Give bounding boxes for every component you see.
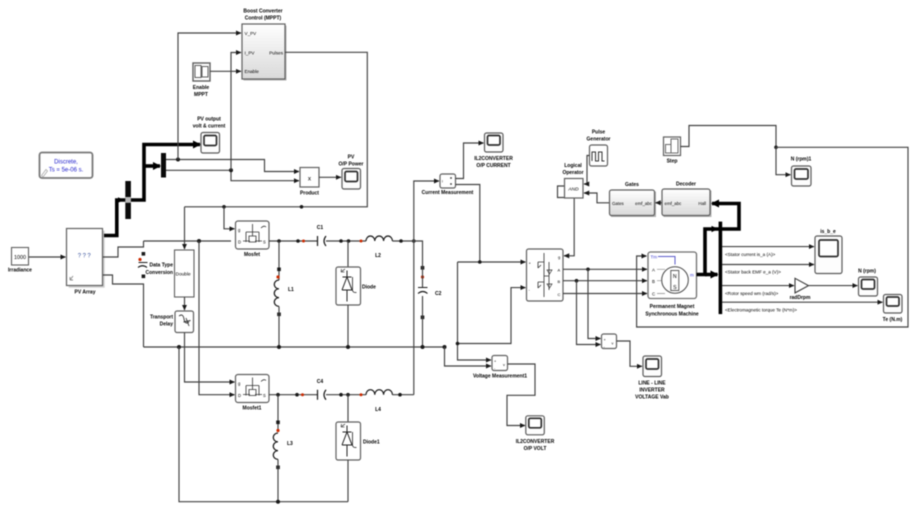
svg-text:Tm: Tm [651, 255, 658, 260]
svg-text:<Rotor speed wm (rad/s)>: <Rotor speed wm (rad/s)> [725, 291, 779, 296]
node rail1 branch to row2 [197, 239, 201, 243]
wire inverter minus [458, 288, 526, 344]
wire PV+ to rail1 [103, 241, 144, 257]
svg-text:LINE - LINE: LINE - LINE [638, 381, 666, 387]
bus arrow at bar crossing [712, 226, 719, 232]
wire Transport Delay to Mosfet1 gate [185, 333, 235, 383]
svg-text:N: N [673, 274, 677, 280]
svg-text:Logical: Logical [564, 163, 582, 169]
block Gates [610, 182, 657, 217]
block Transport Delay [150, 311, 194, 333]
diode block Diode1 [336, 422, 380, 460]
PMSM block Permanent Magnet Synchronous Machine [645, 252, 699, 317]
wire big loop to Tm [637, 147, 908, 327]
subsystem Boost Converter Control (MPPT) [242, 9, 287, 81]
svg-text:S: S [263, 393, 266, 398]
bus branch to bus selector 2 [144, 164, 160, 168]
wire diode bottom [347, 305, 349, 347]
svg-text:Step: Step [667, 159, 678, 165]
bus selector bar (right) [719, 222, 723, 315]
svg-text:N (rpm)1: N (rpm)1 [791, 157, 812, 163]
block Data Type Conversion (Double) [145, 250, 194, 297]
svg-text:Voltage Measurement1: Voltage Measurement1 [473, 374, 527, 380]
svg-text:S: S [263, 240, 266, 245]
svg-text:Synchronous Machine: Synchronous Machine [645, 311, 699, 317]
svg-text:m: m [690, 273, 694, 278]
svg-text:PV Array: PV Array [75, 290, 96, 296]
step block Step [664, 137, 681, 165]
svg-text:volt & current: volt & current [193, 124, 226, 130]
svg-text:Mosfet1: Mosfet1 [243, 406, 262, 412]
svg-text:Diode: Diode [362, 285, 376, 291]
wire rail1 corner to C2 [412, 241, 423, 266]
svg-text:Decoder: Decoder [676, 182, 696, 188]
scope PV O/P Power [339, 155, 364, 190]
wire Gates to AND [584, 193, 610, 203]
scope is_b_e [815, 229, 842, 274]
node gate line jog [300, 205, 304, 209]
logical operator AND [562, 163, 583, 198]
wire rotor speed wm [722, 285, 794, 287]
node L2 right [399, 239, 403, 243]
svg-text:Mosfet: Mosfet [244, 252, 260, 258]
scope Te (N.m) [883, 295, 903, 324]
svg-text:Pulses: Pulses [269, 51, 283, 56]
capacitor C2 [418, 266, 442, 347]
wire PV- to minus rail [103, 275, 144, 347]
svg-text:Data Type: Data Type [149, 263, 173, 269]
svg-text:C: C [652, 292, 655, 297]
svg-text:O/P CURRENT: O/P CURRENT [476, 163, 510, 169]
wire stator back EMF e_a [722, 264, 814, 266]
svg-text:S: S [673, 285, 677, 291]
wire B tap to VM bottom [577, 281, 601, 345]
gain radDrpm [790, 278, 811, 301]
wire I signal from selector [166, 169, 231, 171]
svg-text:B: B [652, 279, 655, 284]
svg-text:C1: C1 [317, 225, 324, 231]
node I tap [229, 168, 233, 172]
node rail1 to CM riser [412, 239, 416, 243]
node C1 right [339, 239, 343, 243]
svg-text:AND: AND [567, 187, 579, 193]
svg-text:radDrpm: radDrpm [790, 295, 811, 301]
diode block Diode [336, 267, 376, 305]
wire VM1 to volt scope [507, 364, 535, 426]
svg-text:Hall: Hall [698, 201, 706, 206]
svg-text:L4: L4 [375, 407, 381, 413]
wire branch to N(rpm)1 scope [776, 147, 791, 174]
inductor L3 branch [277, 395, 279, 432]
node B tap [575, 279, 579, 283]
svg-text:Conversion: Conversion [145, 270, 173, 276]
node bottom rail junctions [177, 345, 181, 349]
capacitor PV input cap [138, 252, 148, 278]
svg-text:Enable: Enable [245, 69, 260, 74]
svg-text:C2: C2 [435, 291, 442, 297]
svg-text:1000: 1000 [14, 255, 26, 261]
svg-text:Enable: Enable [193, 85, 210, 91]
inductor L2 [366, 236, 392, 259]
svg-text:<Electromagnetic torque Te (N*: <Electromagnetic torque Te (N*m)> [725, 307, 797, 312]
block Voltage Measurement1 [473, 356, 527, 380]
wire rail1 left [144, 240, 232, 242]
wire Product to PV O/P Power scope [319, 176, 341, 178]
svg-text:<Stator back EMF e_a (V)>: <Stator back EMF e_a (V)> [725, 270, 781, 275]
bus m output of PMSM (thick) [697, 204, 740, 275]
pulse generator [587, 130, 611, 167]
PV Array block [67, 229, 105, 296]
svg-text:v: v [503, 363, 505, 367]
svg-text:Current Measurement: Current Measurement [422, 190, 474, 196]
wire gain to N rpm scope [809, 285, 858, 287]
svg-text:is_b_e: is_b_e [820, 229, 836, 235]
bus m feed to selector bar [705, 273, 718, 277]
wire VM1 plus tap [458, 262, 492, 360]
svg-text:Boost Converter: Boost Converter [243, 9, 282, 15]
wire V_PV riser [178, 33, 241, 160]
svg-text:L2: L2 [375, 253, 381, 259]
svg-text:Pulse: Pulse [592, 130, 606, 136]
svg-text:Delay: Delay [160, 322, 174, 328]
svg-text:v: v [612, 342, 614, 346]
svg-text:PV: PV [348, 155, 355, 161]
wire rail2 [269, 394, 318, 396]
svg-text:L3: L3 [287, 441, 293, 447]
wire L1 top branch [277, 239, 281, 243]
svg-text:Te (N.m): Te (N.m) [883, 317, 903, 323]
powergui Discrete block [40, 153, 93, 179]
scope IL2CONVERTER O/P CURRENT [474, 133, 513, 169]
node step branch [774, 146, 778, 150]
svg-text:Permanent Magnet: Permanent Magnet [650, 304, 695, 310]
wire Step to corner [681, 126, 777, 148]
svg-text:INVERTER: INVERTER [639, 388, 665, 394]
svg-text:Double: Double [176, 272, 192, 278]
capacitor C1 [317, 225, 412, 246]
wire inverter A to PMSM [563, 268, 647, 270]
wire AND to inverter g [558, 186, 575, 256]
node after mosfet [296, 239, 300, 243]
node diode tap [347, 239, 351, 243]
capacitor C4 [317, 379, 414, 400]
svg-text:VOLTAGE Vab: VOLTAGE Vab [635, 395, 669, 401]
wire rail1 Mosfet right [269, 240, 318, 242]
svg-text:N (rpm): N (rpm) [858, 268, 876, 274]
node V tap [176, 158, 180, 162]
svg-text:D: D [238, 393, 241, 398]
svg-text:L1: L1 [288, 287, 294, 293]
inductor L4 [366, 390, 392, 413]
wire CM i to scope [456, 143, 484, 179]
wire I_PV riser [231, 53, 241, 171]
svg-text:emf_abc: emf_abc [635, 201, 653, 206]
wire bottom rail2 [179, 347, 348, 502]
svg-text:Ts = 5e-06 s.: Ts = 5e-06 s. [49, 168, 84, 174]
wire inverter B to PMSM [563, 280, 647, 282]
svg-text:Product: Product [300, 191, 319, 197]
node gate tap [222, 205, 226, 209]
wire diode1 bottom [347, 460, 349, 502]
svg-text:emf_abc: emf_abc [665, 201, 683, 206]
svg-text:PV output: PV output [197, 117, 221, 123]
wire DTC to Transport Delay [184, 297, 186, 310]
wire A tap to VM top [588, 269, 601, 338]
scope IL2CONVERTER O/P VOLT [516, 416, 555, 452]
svg-text:Gates: Gates [612, 201, 625, 206]
svg-text:???: ??? [78, 254, 93, 260]
svg-text:<Stator current is_a (A)>: <Stator current is_a (A)> [725, 252, 776, 257]
scope PV output volt & current [193, 117, 226, 154]
svg-text:Gates: Gates [625, 182, 639, 188]
inductor L1 [274, 280, 294, 347]
svg-text:O/P VOLT: O/P VOLT [524, 446, 547, 452]
svg-text:B: B [558, 279, 561, 284]
svg-text:A: A [652, 267, 655, 272]
svg-text:Diode1: Diode1 [363, 440, 380, 446]
wire to Data Type Conversion [184, 207, 186, 249]
mosfet block Mosfet1 [236, 375, 270, 412]
block Voltage Measurement (line-line) [602, 334, 617, 349]
svg-text:Operator: Operator [562, 170, 583, 176]
svg-text:A: A [558, 268, 561, 273]
bus arrow on m wire [118, 197, 124, 203]
wire Irradiance to PV Array [29, 256, 66, 258]
wire V signal from selector [166, 160, 299, 172]
block Decoder [662, 182, 712, 218]
svg-text:MPPT: MPPT [194, 92, 208, 98]
wire gate to Mosfet [224, 207, 235, 229]
svg-text:O/P Power: O/P Power [339, 162, 364, 168]
svg-text:C4: C4 [317, 379, 324, 385]
svg-text:Transport: Transport [150, 315, 173, 321]
svg-text:IL2CONVERTER: IL2CONVERTER [516, 439, 555, 445]
svg-text:IL2CONVERTER: IL2CONVERTER [474, 156, 513, 162]
svg-text:g: g [558, 255, 560, 260]
svg-text:Discrete,: Discrete, [54, 160, 78, 166]
wire Enable MPPT to Enable [210, 70, 241, 72]
svg-text:C: C [558, 292, 561, 297]
bus selector 1 (black bar) [125, 181, 131, 219]
wire Decoder to Gates [656, 202, 663, 204]
block Current Measurement [422, 174, 474, 196]
wire VM to Vab scope [617, 341, 643, 366]
svg-text:V_PV: V_PV [245, 31, 258, 36]
wire diode branch [347, 241, 349, 267]
bus m from PV Array (thick) [104, 145, 200, 236]
wire bottom rail to VM1 minus [445, 347, 492, 366]
wire riser to Current Measurement [414, 181, 439, 395]
svg-text:D: D [238, 240, 241, 245]
wire bottom rail1 [144, 346, 445, 348]
product block Product [300, 168, 319, 197]
node A tap [586, 268, 590, 272]
scope N (rpm)1 [791, 157, 812, 187]
svg-text:Irradiance: Irradiance [8, 268, 32, 274]
wire CM out to inverter plus [456, 185, 526, 263]
inverter block (universal bridge) [527, 249, 564, 301]
mosfet block Mosfet [236, 221, 270, 258]
wire inverter C to PMSM [563, 293, 647, 295]
bus selector 2 (black bar) [161, 153, 166, 178]
block Enable MPPT (manual switch) [193, 63, 210, 98]
scope N (rpm) [858, 268, 877, 296]
scope LINE-LINE INVERTER VOLTAGE Vab [635, 356, 669, 401]
wire stator current is_a [722, 246, 814, 248]
wire diode1 branch [347, 395, 349, 422]
wire I to product in2 [231, 170, 299, 180]
svg-text:I_PV: I_PV [245, 51, 256, 56]
svg-text:Generator: Generator [587, 137, 611, 143]
wire electromagnetic torque Te [722, 301, 883, 303]
constant Irradiance 1000 [8, 248, 32, 274]
wire PG to AND [584, 156, 590, 185]
wire Pulses output [185, 52, 368, 207]
wire drop to row2 [199, 241, 235, 395]
svg-text:Control (MPPT): Control (MPPT) [245, 16, 282, 22]
